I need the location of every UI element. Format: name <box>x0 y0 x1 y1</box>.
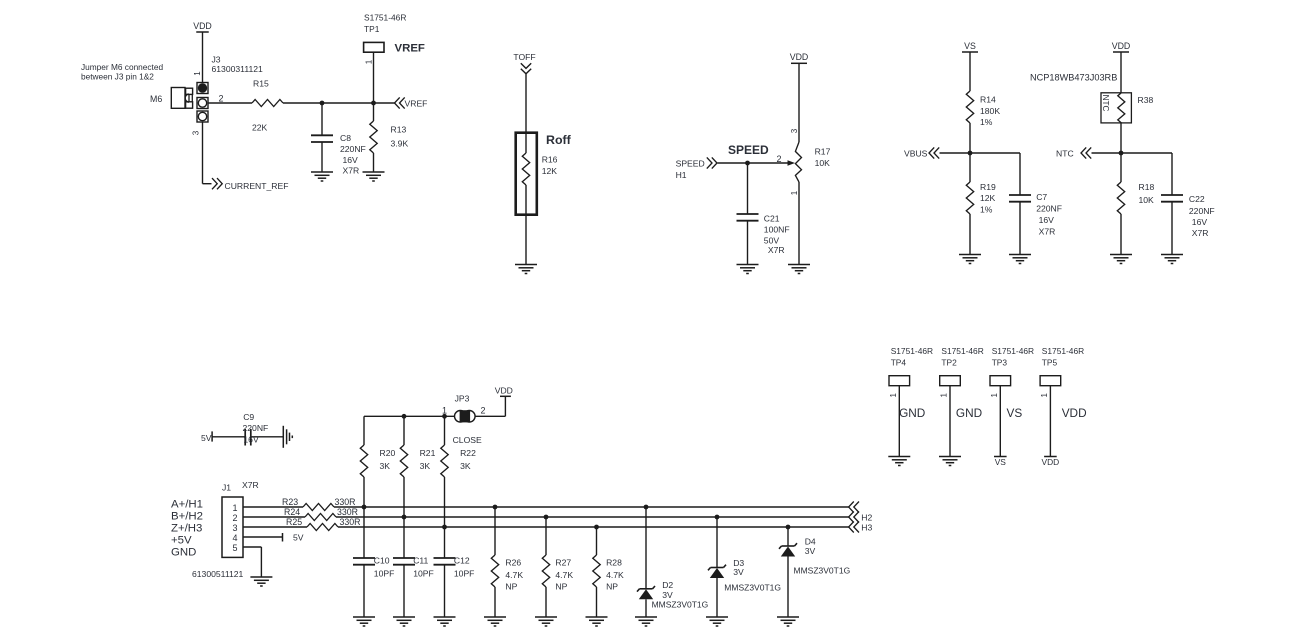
svg-text:between J3 pin 1&2: between J3 pin 1&2 <box>81 72 154 82</box>
svg-text:C9: C9 <box>243 412 254 422</box>
svg-text:S1751-46R: S1751-46R <box>941 346 983 356</box>
svg-text:1%: 1% <box>980 117 993 127</box>
svg-text:CLOSE: CLOSE <box>453 435 482 445</box>
svg-text:1: 1 <box>1040 393 1049 398</box>
svg-text:3K: 3K <box>380 461 391 471</box>
svg-text:R25: R25 <box>286 517 302 527</box>
svg-text:220NF: 220NF <box>1189 206 1215 216</box>
svg-text:10PF: 10PF <box>374 569 395 579</box>
svg-text:TP2: TP2 <box>941 358 957 368</box>
svg-text:4.7K: 4.7K <box>606 570 624 580</box>
svg-text:X7R: X7R <box>1192 228 1209 238</box>
svg-text:J3: J3 <box>212 55 221 65</box>
svg-text:S1751-46R: S1751-46R <box>891 346 933 356</box>
svg-text:R26: R26 <box>505 558 521 568</box>
svg-text:R28: R28 <box>606 558 622 568</box>
svg-text:Jumper M6 connected: Jumper M6 connected <box>81 62 163 72</box>
svg-text:TP4: TP4 <box>891 358 907 368</box>
svg-text:16V: 16V <box>243 435 259 445</box>
svg-text:1: 1 <box>990 393 999 398</box>
svg-text:R23: R23 <box>282 497 298 507</box>
svg-text:TP1: TP1 <box>364 24 380 34</box>
svg-text:MMSZ3V0T1G: MMSZ3V0T1G <box>652 600 709 610</box>
svg-text:100NF: 100NF <box>764 225 790 235</box>
svg-text:3: 3 <box>232 523 237 533</box>
svg-text:R17: R17 <box>815 147 831 157</box>
svg-text:4: 4 <box>232 533 237 543</box>
svg-text:TOFF: TOFF <box>513 52 535 62</box>
svg-text:3V: 3V <box>733 567 744 577</box>
svg-text:S1751-46R: S1751-46R <box>1042 346 1084 356</box>
svg-text:VREF: VREF <box>405 98 428 108</box>
svg-text:220NF: 220NF <box>243 423 269 433</box>
svg-text:1%: 1% <box>980 204 993 214</box>
svg-text:B+/H2: B+/H2 <box>171 511 203 523</box>
svg-text:GND: GND <box>171 547 196 559</box>
svg-text:NP: NP <box>505 581 517 591</box>
svg-text:VS: VS <box>1007 406 1023 420</box>
svg-text:R21: R21 <box>420 448 436 458</box>
svg-text:3: 3 <box>192 130 201 135</box>
svg-text:R13: R13 <box>391 125 407 135</box>
svg-text:3.9K: 3.9K <box>391 139 409 149</box>
svg-text:5: 5 <box>232 543 237 553</box>
svg-text:220NF: 220NF <box>340 144 366 154</box>
svg-text:D4: D4 <box>805 537 816 547</box>
svg-text:C7: C7 <box>1036 192 1047 202</box>
svg-text:3V: 3V <box>662 590 673 600</box>
svg-text:22K: 22K <box>252 123 268 133</box>
svg-text:NP: NP <box>555 581 567 591</box>
svg-text:R27: R27 <box>555 558 571 568</box>
svg-text:330R: 330R <box>335 497 356 507</box>
svg-text:X7R: X7R <box>343 166 360 176</box>
svg-text:4.7K: 4.7K <box>555 570 573 580</box>
svg-text:TP5: TP5 <box>1042 358 1058 368</box>
svg-text:R20: R20 <box>380 448 396 458</box>
svg-text:3: 3 <box>790 128 799 133</box>
svg-text:NP: NP <box>606 581 618 591</box>
svg-text:61300311121: 61300311121 <box>212 64 264 74</box>
svg-text:R24: R24 <box>284 507 300 517</box>
svg-text:D2: D2 <box>662 580 673 590</box>
svg-text:10PF: 10PF <box>413 569 434 579</box>
svg-text:16V: 16V <box>343 155 359 165</box>
svg-text:3K: 3K <box>460 461 471 471</box>
svg-text:MMSZ3V0T1G: MMSZ3V0T1G <box>724 582 781 592</box>
svg-text:3K: 3K <box>420 461 431 471</box>
svg-text:1: 1 <box>790 190 799 195</box>
svg-text:C21: C21 <box>764 214 780 224</box>
svg-text:2: 2 <box>219 94 224 104</box>
svg-text:R22: R22 <box>460 448 476 458</box>
svg-text:3V: 3V <box>805 546 816 556</box>
svg-text:NCP18WB473J03RB: NCP18WB473J03RB <box>1030 73 1117 83</box>
svg-text:4.7K: 4.7K <box>505 570 523 580</box>
svg-text:GND: GND <box>899 406 925 420</box>
svg-text:C8: C8 <box>340 133 351 143</box>
svg-text:VDD: VDD <box>495 386 513 396</box>
svg-text:VBUS: VBUS <box>904 149 928 159</box>
svg-text:C22: C22 <box>1189 194 1205 204</box>
svg-text:VREF: VREF <box>395 42 425 54</box>
svg-text:R15: R15 <box>253 79 269 89</box>
svg-text:NTC: NTC <box>1056 149 1074 159</box>
svg-text:16V: 16V <box>1039 215 1055 225</box>
svg-text:C12: C12 <box>454 556 470 566</box>
svg-text:5V: 5V <box>201 433 212 443</box>
svg-text:220NF: 220NF <box>1036 204 1062 214</box>
svg-text:R38: R38 <box>1138 95 1154 105</box>
svg-text:MMSZ3V0T1G: MMSZ3V0T1G <box>794 566 851 576</box>
svg-text:SPEED: SPEED <box>728 143 769 157</box>
svg-text:1: 1 <box>889 393 898 398</box>
svg-text:X7R: X7R <box>242 480 259 490</box>
svg-text:61300511121: 61300511121 <box>192 569 244 579</box>
svg-text:10K: 10K <box>815 158 831 168</box>
svg-text:TP3: TP3 <box>992 358 1008 368</box>
svg-text:C11: C11 <box>413 556 428 566</box>
svg-text:X7R: X7R <box>768 245 785 255</box>
svg-text:1: 1 <box>364 59 373 64</box>
svg-text:R18: R18 <box>1139 182 1155 192</box>
svg-text:S1751-46R: S1751-46R <box>992 346 1034 356</box>
svg-text:VDD: VDD <box>1042 457 1060 467</box>
svg-text:VDD: VDD <box>1112 41 1131 51</box>
svg-text:M6: M6 <box>150 94 162 104</box>
svg-text:2: 2 <box>232 513 237 523</box>
svg-text:2: 2 <box>777 154 782 164</box>
svg-text:X7R: X7R <box>1039 226 1056 236</box>
svg-text:12K: 12K <box>980 193 996 203</box>
svg-text:VS: VS <box>964 41 976 51</box>
svg-text:5V: 5V <box>293 533 304 543</box>
svg-text:2: 2 <box>480 406 485 416</box>
svg-text:SPEED: SPEED <box>676 159 705 169</box>
svg-text:A+/H1: A+/H1 <box>171 499 203 511</box>
svg-text:Roff: Roff <box>546 133 572 147</box>
svg-text:H3: H3 <box>861 523 872 533</box>
svg-text:H1: H1 <box>676 170 687 180</box>
svg-text:S1751-46R: S1751-46R <box>364 13 406 23</box>
svg-text:330R: 330R <box>340 517 361 527</box>
svg-text:330R: 330R <box>337 507 358 517</box>
svg-text:Z+/H3: Z+/H3 <box>171 523 202 535</box>
svg-text:R19: R19 <box>980 182 996 192</box>
svg-text:VDD: VDD <box>193 21 212 31</box>
svg-text:16V: 16V <box>1192 217 1208 227</box>
svg-text:1: 1 <box>940 393 949 398</box>
svg-text:J1: J1 <box>222 483 231 493</box>
svg-text:10PF: 10PF <box>454 569 475 579</box>
svg-text:R16: R16 <box>542 155 558 165</box>
svg-text:CURRENT_REF: CURRENT_REF <box>225 181 289 191</box>
svg-text:VDD: VDD <box>790 52 809 62</box>
svg-text:10K: 10K <box>1139 195 1155 205</box>
svg-text:+5V: +5V <box>171 535 192 547</box>
svg-text:VDD: VDD <box>1062 406 1087 420</box>
svg-text:GND: GND <box>956 406 982 420</box>
svg-text:R14: R14 <box>980 95 996 105</box>
svg-text:12K: 12K <box>542 166 558 176</box>
svg-text:VS: VS <box>995 457 1007 467</box>
svg-text:180K: 180K <box>980 106 1000 116</box>
svg-text:1: 1 <box>232 503 237 513</box>
svg-text:JP3: JP3 <box>455 394 470 404</box>
svg-text:1: 1 <box>193 71 202 76</box>
svg-text:NTC: NTC <box>1101 95 1110 112</box>
svg-text:H2: H2 <box>861 512 872 522</box>
svg-text:C10: C10 <box>374 556 390 566</box>
